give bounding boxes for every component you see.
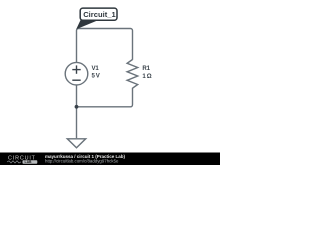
svg-text:R1: R1 bbox=[142, 65, 150, 72]
svg-text:5 V: 5 V bbox=[92, 72, 101, 79]
svg-text:1 Ω: 1 Ω bbox=[142, 73, 151, 80]
svg-text:http://circuitlab.com/c/8addyg: http://circuitlab.com/c/8addyg97hck5e bbox=[45, 158, 119, 163]
svg-text:LAB: LAB bbox=[25, 160, 33, 164]
svg-text:Circuit_1: Circuit_1 bbox=[83, 10, 116, 19]
svg-text:V1: V1 bbox=[92, 65, 100, 72]
